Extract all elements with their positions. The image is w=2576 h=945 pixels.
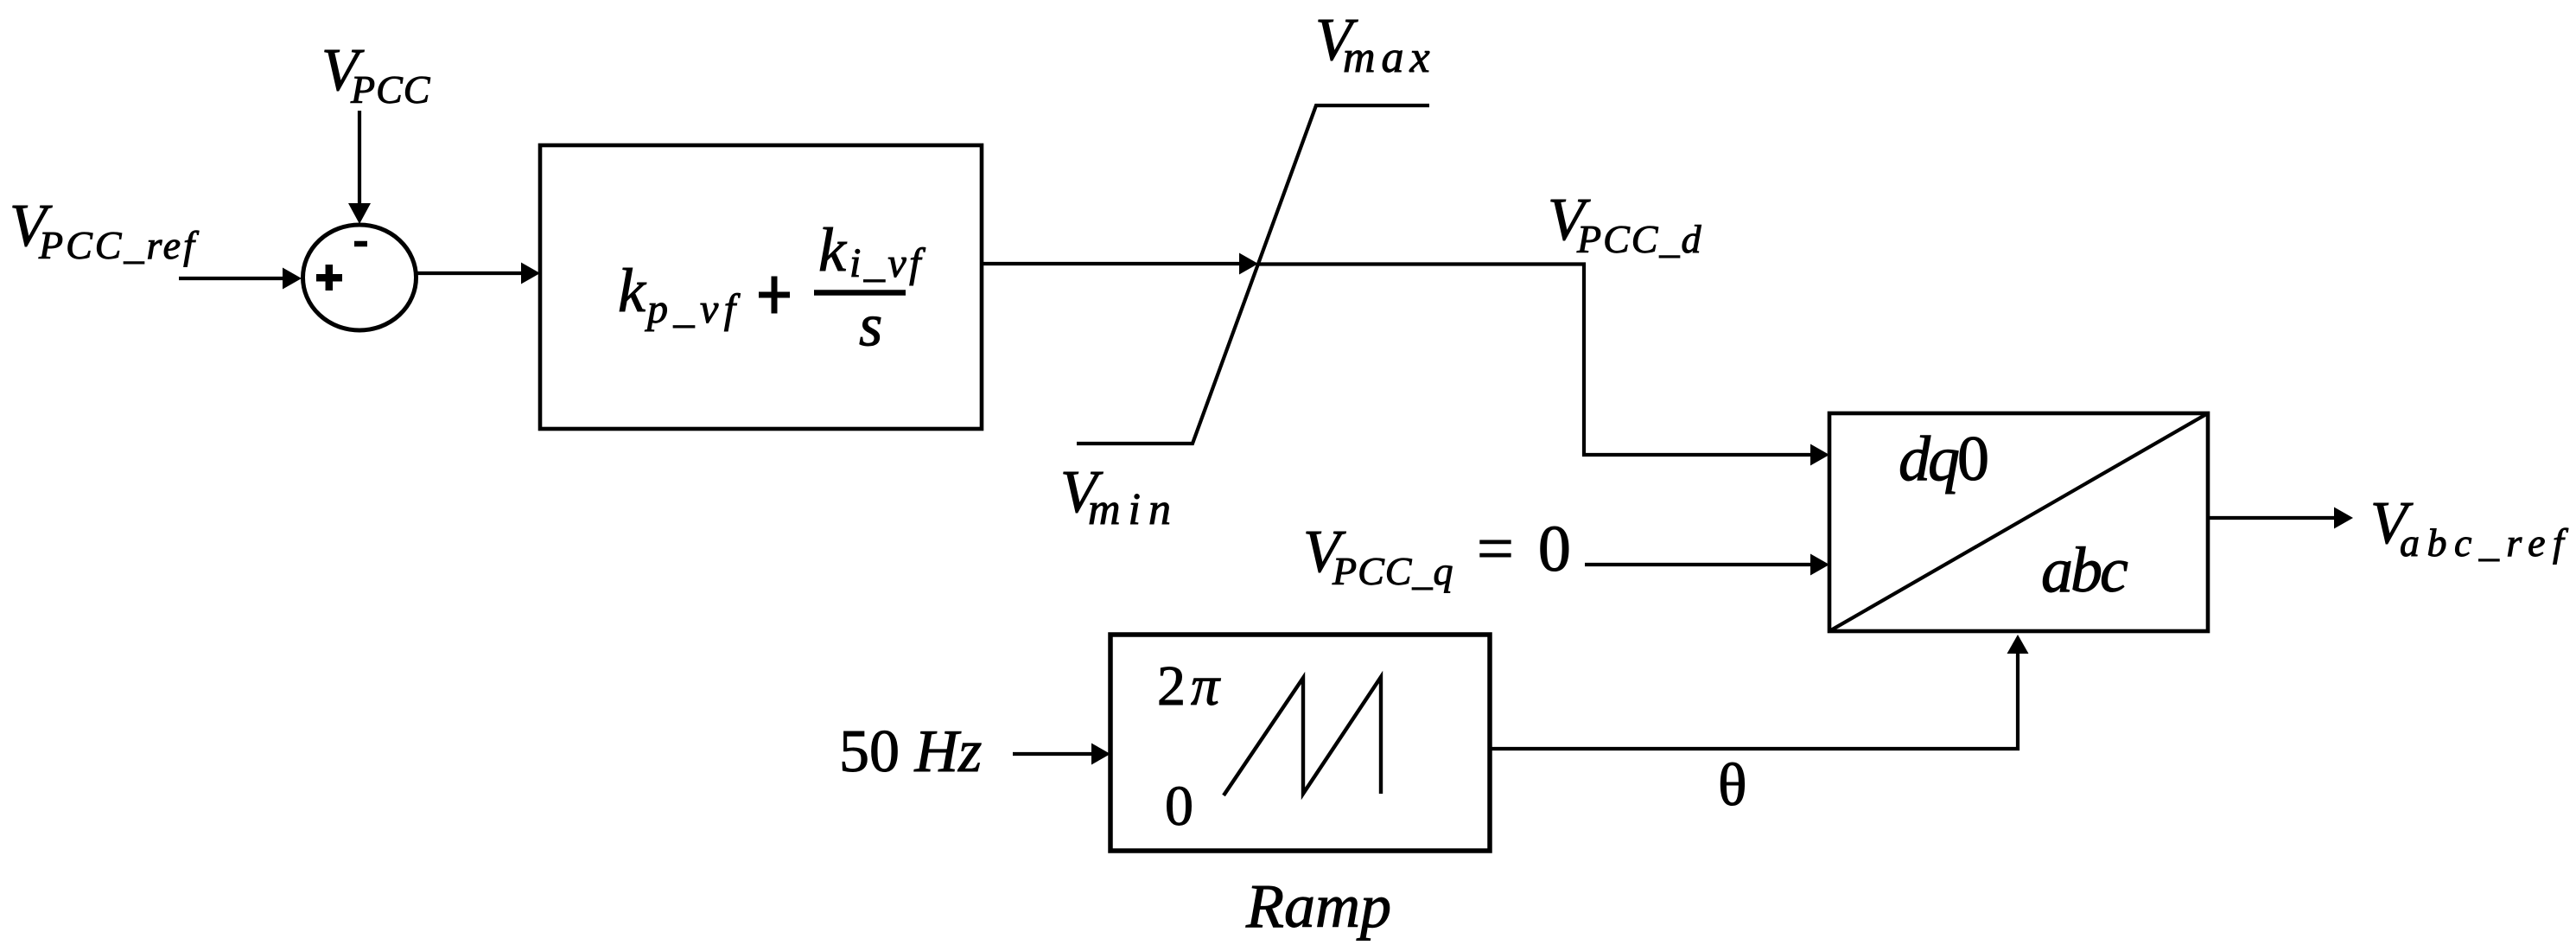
svg-text:p_vf: p_vf [645, 286, 741, 332]
svg-text:θ: θ [1718, 752, 1747, 819]
svg-text:k: k [818, 215, 848, 284]
svg-text:50 Hz: 50 Hz [839, 718, 982, 785]
svg-text:abc: abc [2041, 535, 2128, 606]
svg-text:0: 0 [1165, 775, 1193, 838]
svg-text:2π: 2π [1157, 654, 1223, 718]
svg-text:max: max [1343, 33, 1436, 82]
svg-text:= 0: = 0 [1477, 513, 1571, 585]
svg-text:PCC_d: PCC_d [1576, 217, 1702, 261]
svg-text:PCC_q: PCC_q [1332, 549, 1453, 593]
svg-text:PCC: PCC [350, 67, 431, 112]
svg-text:dq0: dq0 [1899, 424, 1988, 495]
svg-text:min: min [1088, 485, 1179, 534]
svg-text:s: s [859, 293, 882, 360]
svg-text:abc_ref: abc_ref [2400, 520, 2571, 565]
svg-text:PCC_ref: PCC_ref [38, 223, 200, 267]
svg-text:Ramp: Ramp [1245, 872, 1391, 941]
svg-text:k: k [618, 256, 647, 325]
svg-text:i_vf: i_vf [849, 240, 925, 286]
